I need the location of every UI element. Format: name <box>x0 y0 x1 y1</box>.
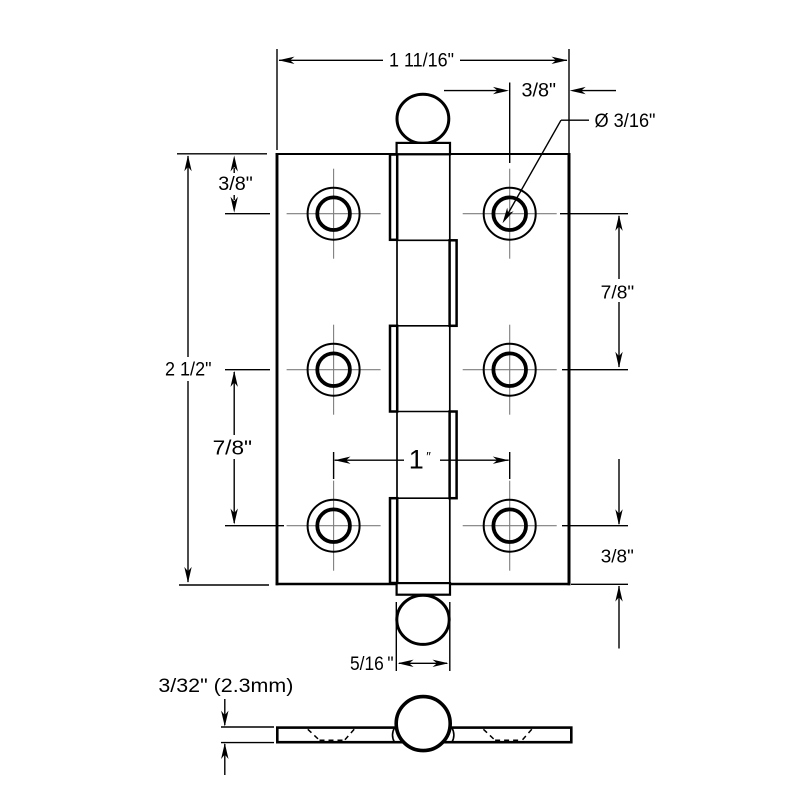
leaf curl arc left of barrel <box>393 728 395 743</box>
barrel right line <box>449 155 451 583</box>
extension line left edge (top width dim) <box>276 49 278 150</box>
arrow up (7/8 right) <box>615 215 622 231</box>
arrow right (1 inch dim) <box>493 457 509 464</box>
leader line of hole diameter callout <box>561 119 589 121</box>
extension line plate bottom <box>221 742 274 744</box>
arrow down to bottom row (3/8 right) <box>615 509 622 525</box>
barrel end (side view ball) <box>396 697 450 751</box>
knuckle tab 4 (right leaf) <box>450 412 457 499</box>
svg-text:7/8": 7/8" <box>213 438 253 460</box>
screw hole middle-right (outer) <box>484 344 536 396</box>
knuckle tab 5 (left leaf, bottom) <box>390 498 397 583</box>
dim line 5/16 <box>399 662 447 664</box>
centerline cross of middle-left hole <box>287 369 381 371</box>
arrow up (2 1/2) <box>184 155 191 171</box>
dimension line 1 11/16 right segment <box>460 59 567 61</box>
svg-text:5/16 ": 5/16 " <box>350 653 394 675</box>
screw hole bottom-right (inner ring) <box>493 509 526 542</box>
dim line 2 1/2 lower segment <box>187 381 189 582</box>
centerline cross of middle-right hole <box>463 369 557 371</box>
left countersink (hidden lines) <box>308 729 320 740</box>
extension line top row left <box>225 213 270 215</box>
arrow down to plate top <box>221 711 228 727</box>
knuckle tab 2 (right leaf) <box>450 240 457 325</box>
centerline cross of bottom-right hole <box>463 525 557 527</box>
leaf curl arc right of barrel <box>452 728 454 743</box>
svg-text:Ø 3/16": Ø 3/16" <box>595 110 656 132</box>
dim line 3/8 left vertical <box>233 168 235 173</box>
arrow up to plate bottom <box>221 743 228 759</box>
extension line up from bottom-right hole center <box>509 452 511 479</box>
arrow right (5/16) <box>433 660 449 667</box>
svg-text:3/32" (2.3mm): 3/32" (2.3mm) <box>158 675 293 697</box>
dim line 1 inch left segment <box>335 459 404 461</box>
extension line middle row left <box>225 369 270 371</box>
bottom finial ball <box>397 595 449 644</box>
dimension line 1 11/16 left segment <box>279 59 383 61</box>
screw hole top-left (inner ring) <box>317 197 350 230</box>
svg-text:1 11/16": 1 11/16" <box>389 50 454 71</box>
screw hole middle-left (outer) <box>308 344 360 396</box>
dim line 1 inch right segment <box>440 459 509 461</box>
knuckle division line 1 <box>397 239 452 241</box>
arrow right of 1 11/16 dim <box>552 57 568 64</box>
dim line 2 1/2 upper segment <box>187 156 189 357</box>
arrow down (7/8 left) <box>231 509 238 525</box>
bottom pin collar <box>397 583 450 595</box>
extension line bottom (overall height dim) <box>179 584 269 586</box>
dim line below plate (3/32) <box>224 744 226 775</box>
arrow left (5/16) <box>398 660 414 667</box>
knuckle division line 2 <box>397 325 452 327</box>
screw hole top-right (inner ring) <box>493 197 526 230</box>
dim line 3/8 top left segment <box>444 90 498 92</box>
knuckle tab 1 (left leaf, top) <box>390 155 397 240</box>
extension line top row right <box>560 213 628 215</box>
svg-text:3/8": 3/8" <box>218 173 253 195</box>
extension line plate top <box>221 726 274 728</box>
svg-text:3/8": 3/8" <box>522 80 557 102</box>
top pin collar <box>397 143 450 154</box>
extension line top (overall height dim) <box>177 153 267 155</box>
dim line 3/8 top right segment <box>581 90 616 92</box>
arrow left (1 inch dim) <box>335 457 351 464</box>
extension line up from bottom-left hole center <box>333 452 335 479</box>
svg-text:7/8": 7/8" <box>601 282 635 303</box>
extension line over top-right hole center <box>509 83 511 164</box>
leaf plate (side view) <box>277 728 571 743</box>
dim line below (3/8 right) <box>618 586 620 649</box>
extension line right edge (top width + 3/8 dims) <box>568 49 570 153</box>
arrow down (7/8 right) <box>615 352 622 368</box>
centerline cross of bottom-left hole <box>287 525 381 527</box>
top finial ball <box>397 94 449 143</box>
knuckle tab 3 (left leaf) <box>390 326 397 412</box>
arrow left of 1 11/16 dim <box>279 57 295 64</box>
extension line left of bottom collar <box>395 602 397 671</box>
leader arrowhead into top-right hole <box>503 208 514 224</box>
barrel left line <box>396 155 398 583</box>
screw hole top-right (outer) <box>484 188 536 240</box>
arrow up to bottom edge (3/8 right) <box>615 586 622 602</box>
dim line above (3/8 right) <box>618 459 620 524</box>
dim line 7/8 right vertical <box>618 216 620 279</box>
svg-text:3/8": 3/8" <box>601 545 634 566</box>
svg-text:″: ″ <box>426 449 431 464</box>
arrow pointing right at hole center ext <box>493 87 509 94</box>
extension line bottom edge right <box>571 583 628 585</box>
hinge top edge through collar <box>398 153 449 155</box>
knuckle division line 3 <box>397 411 452 413</box>
extension line right of bottom collar <box>449 602 451 671</box>
extension line bottom row right <box>562 525 628 527</box>
centerline cross of top-right hole <box>463 213 557 215</box>
hinge leaf outline (front view) <box>277 154 569 584</box>
arrow down (2 1/2) <box>184 567 191 583</box>
screw hole middle-left (inner ring) <box>317 353 350 386</box>
dim line above plate (3/32) <box>224 699 226 725</box>
arrow up (7/8 left) <box>231 371 238 387</box>
svg-text:2 1/2": 2 1/2" <box>165 359 212 381</box>
screw hole middle-right (inner ring) <box>493 353 526 386</box>
screw hole bottom-left (inner ring) <box>317 509 350 542</box>
screw hole bottom-right (outer) <box>484 500 536 552</box>
screw hole top-left (outer) <box>308 188 360 240</box>
centerline cross of top-left hole <box>287 213 381 215</box>
arrow up (3/8 left) <box>231 156 238 172</box>
dim line 7/8 left vertical <box>233 372 235 435</box>
right countersink (hidden lines) <box>483 729 495 740</box>
extension line middle row right <box>562 369 628 371</box>
arrow down (3/8 left) <box>231 197 238 213</box>
arrow pointing left at right edge ext <box>570 87 586 94</box>
extension line bottom row left <box>225 525 284 527</box>
svg-text:1: 1 <box>409 445 424 475</box>
knuckle division line 4 <box>397 497 452 499</box>
screw hole bottom-left (outer) <box>308 500 360 552</box>
